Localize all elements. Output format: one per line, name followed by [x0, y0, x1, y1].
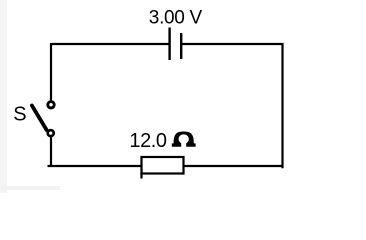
svg-text:3.00 V: 3.00 V: [149, 7, 203, 28]
svg-text:12.0: 12.0: [129, 130, 166, 152]
svg-text:S: S: [13, 104, 26, 126]
